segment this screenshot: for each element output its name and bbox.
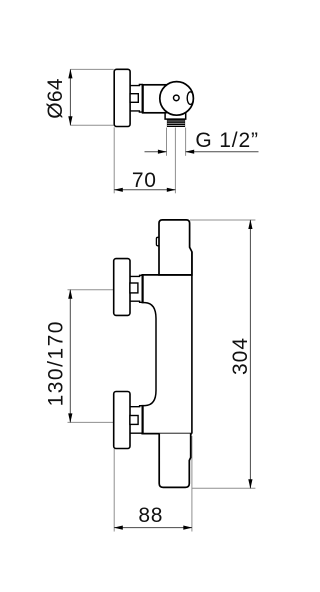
svg-text:88: 88 <box>138 504 163 527</box>
svg-text:Ø64: Ø64 <box>44 78 67 119</box>
svg-text:130/170: 130/170 <box>45 320 68 406</box>
svg-text:304: 304 <box>229 337 252 375</box>
svg-text:G 1/2”: G 1/2” <box>195 129 258 152</box>
svg-text:70: 70 <box>132 169 157 192</box>
